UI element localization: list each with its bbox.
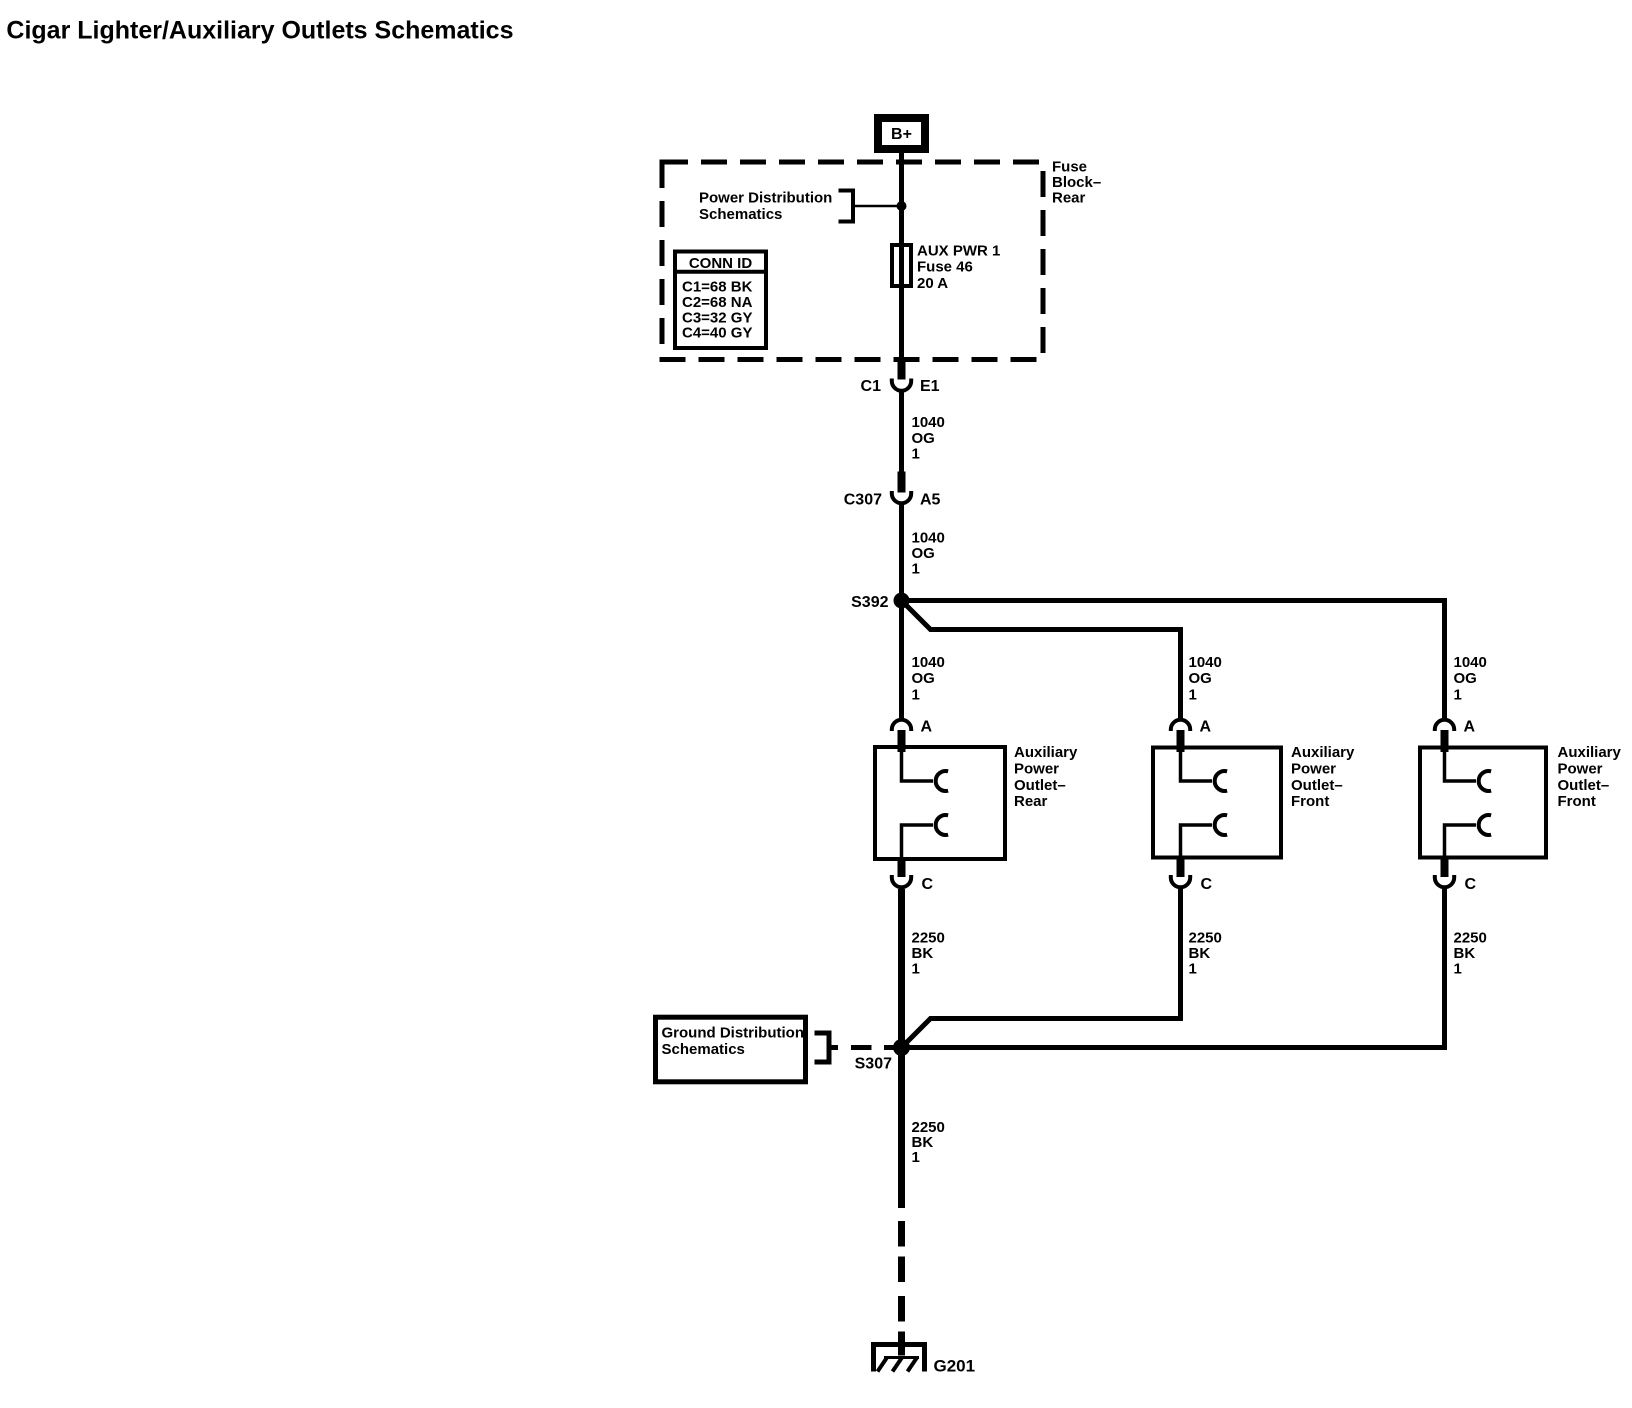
svg-text:20 A: 20 A <box>917 275 948 292</box>
svg-text:C: C <box>1201 876 1213 893</box>
svg-text:OG: OG <box>912 430 935 447</box>
svg-text:Rear: Rear <box>1052 189 1086 206</box>
svg-text:A5: A5 <box>920 492 941 509</box>
svg-text:A: A <box>1464 719 1476 736</box>
wire: ground trunk from rear outlet <box>898 889 905 1208</box>
svg-text:Front: Front <box>1558 793 1596 810</box>
box: Auxiliary Power Outlet-Front (middle) <box>1153 748 1281 858</box>
svg-text:1: 1 <box>1454 686 1462 703</box>
wire: B+ feed vertical <box>899 149 904 360</box>
connector A (rear outlet) <box>892 720 911 731</box>
svg-text:S392: S392 <box>851 594 888 611</box>
svg-text:1: 1 <box>912 445 920 462</box>
svg-text:S307: S307 <box>855 1056 892 1073</box>
pin stub into C307 <box>898 472 906 493</box>
svg-text:B+: B+ <box>891 126 912 143</box>
svg-text:1: 1 <box>912 560 920 577</box>
ground G201 <box>871 1342 927 1347</box>
svg-text:Power: Power <box>1291 760 1336 777</box>
svg-text:C1: C1 <box>861 378 882 395</box>
svg-text:A: A <box>1200 719 1212 736</box>
svg-text:C: C <box>922 876 934 893</box>
svg-text:C4=40 GY: C4=40 GY <box>682 325 752 342</box>
cigar lighter element (Front outlet 1444.5) <box>1445 750 1477 782</box>
box: Ground Distribution Schematics <box>656 1017 806 1082</box>
svg-text:Outlet–: Outlet– <box>1014 777 1066 794</box>
CONN ID table <box>675 252 766 349</box>
svg-text:Schematics: Schematics <box>662 1041 745 1058</box>
svg-text:Power: Power <box>1014 760 1059 777</box>
bracket for Power Distribution reference <box>839 189 854 193</box>
svg-text:Outlet–: Outlet– <box>1558 777 1610 794</box>
svg-text:C: C <box>1465 876 1477 893</box>
splice S392 <box>894 593 910 609</box>
svg-text:AUX PWR 1: AUX PWR 1 <box>917 242 1000 259</box>
connector C (front outlet 2) <box>1441 859 1449 878</box>
B+ battery feed box <box>878 118 925 149</box>
splice S307 <box>893 1039 910 1056</box>
svg-text:1: 1 <box>912 686 920 703</box>
svg-text:E1: E1 <box>920 378 940 395</box>
box: Auxiliary Power Outlet-Front (right) <box>1420 748 1546 858</box>
svg-text:OG: OG <box>1189 670 1212 687</box>
dashed wire: bracket to S307 <box>831 1045 838 1050</box>
svg-text:Rear: Rear <box>1014 793 1048 810</box>
wire: bracket to feed <box>853 205 898 208</box>
svg-text:Outlet–: Outlet– <box>1291 777 1343 794</box>
svg-text:A: A <box>921 719 933 736</box>
wire: C307 to S392 <box>899 505 904 596</box>
svg-text:OG: OG <box>912 670 935 687</box>
wire: S392 to right branch <box>905 601 1445 721</box>
bracket for Ground Distribution reference <box>815 1031 830 1036</box>
fuse AUX PWR 1 Fuse 46 20A <box>892 245 911 286</box>
svg-text:1: 1 <box>1189 686 1197 703</box>
svg-text:OG: OG <box>912 545 935 562</box>
connector A (front outlet 1) <box>1171 720 1190 731</box>
node: junction dot on feed <box>897 201 907 211</box>
svg-text:1040: 1040 <box>912 654 945 671</box>
svg-text:1: 1 <box>912 1149 920 1166</box>
connector C (rear outlet) <box>898 860 906 877</box>
wire: right outlet ground to S307 <box>909 889 1445 1048</box>
svg-text:Schematics: Schematics <box>699 206 782 223</box>
svg-text:Auxiliary: Auxiliary <box>1014 744 1078 761</box>
wire: S392 down left branch <box>899 608 904 721</box>
pin stub into C1 <box>898 358 906 380</box>
svg-text:OG: OG <box>1454 670 1477 687</box>
connector A (front outlet 2) <box>1435 720 1454 731</box>
svg-text:G201: G201 <box>934 1357 976 1376</box>
svg-text:Fuse 46: Fuse 46 <box>917 259 973 276</box>
cigar lighter element (Rear outlet 901.5) <box>902 749 934 781</box>
svg-text:1040: 1040 <box>912 414 945 431</box>
svg-text:Power Distribution: Power Distribution <box>699 190 832 207</box>
fuse block rear dashed box <box>662 162 1043 360</box>
dashed wire to ground <box>898 1221 905 1247</box>
wire: S392 diagonal to middle branch <box>903 602 1181 721</box>
svg-text:CONN ID: CONN ID <box>689 255 753 272</box>
svg-text:Ground Distribution: Ground Distribution <box>662 1024 804 1041</box>
svg-text:Auxiliary: Auxiliary <box>1558 744 1622 761</box>
svg-text:C307: C307 <box>844 492 882 509</box>
svg-text:1: 1 <box>1189 961 1197 978</box>
svg-text:Auxiliary: Auxiliary <box>1291 744 1355 761</box>
box: Auxiliary Power Outlet-Rear <box>875 747 1005 859</box>
connector C (front outlet 1) <box>1177 859 1185 878</box>
svg-text:1040: 1040 <box>1189 654 1222 671</box>
svg-text:Power: Power <box>1558 760 1603 777</box>
wire: middle outlet ground to S307 <box>903 889 1181 1047</box>
connector C1/E1 <box>892 379 911 391</box>
connector C307/A5 <box>892 491 911 503</box>
svg-text:1040: 1040 <box>912 529 945 546</box>
svg-text:1: 1 <box>912 961 920 978</box>
wire: C1 to C307 <box>899 392 904 472</box>
svg-text:1040: 1040 <box>1454 654 1487 671</box>
svg-text:Front: Front <box>1291 793 1329 810</box>
svg-text:Cigar Lighter/Auxiliary Outlet: Cigar Lighter/Auxiliary Outlets Schemati… <box>6 17 513 45</box>
cigar lighter element (Front outlet 1180.5) <box>1181 750 1213 782</box>
svg-text:1: 1 <box>1454 961 1462 978</box>
